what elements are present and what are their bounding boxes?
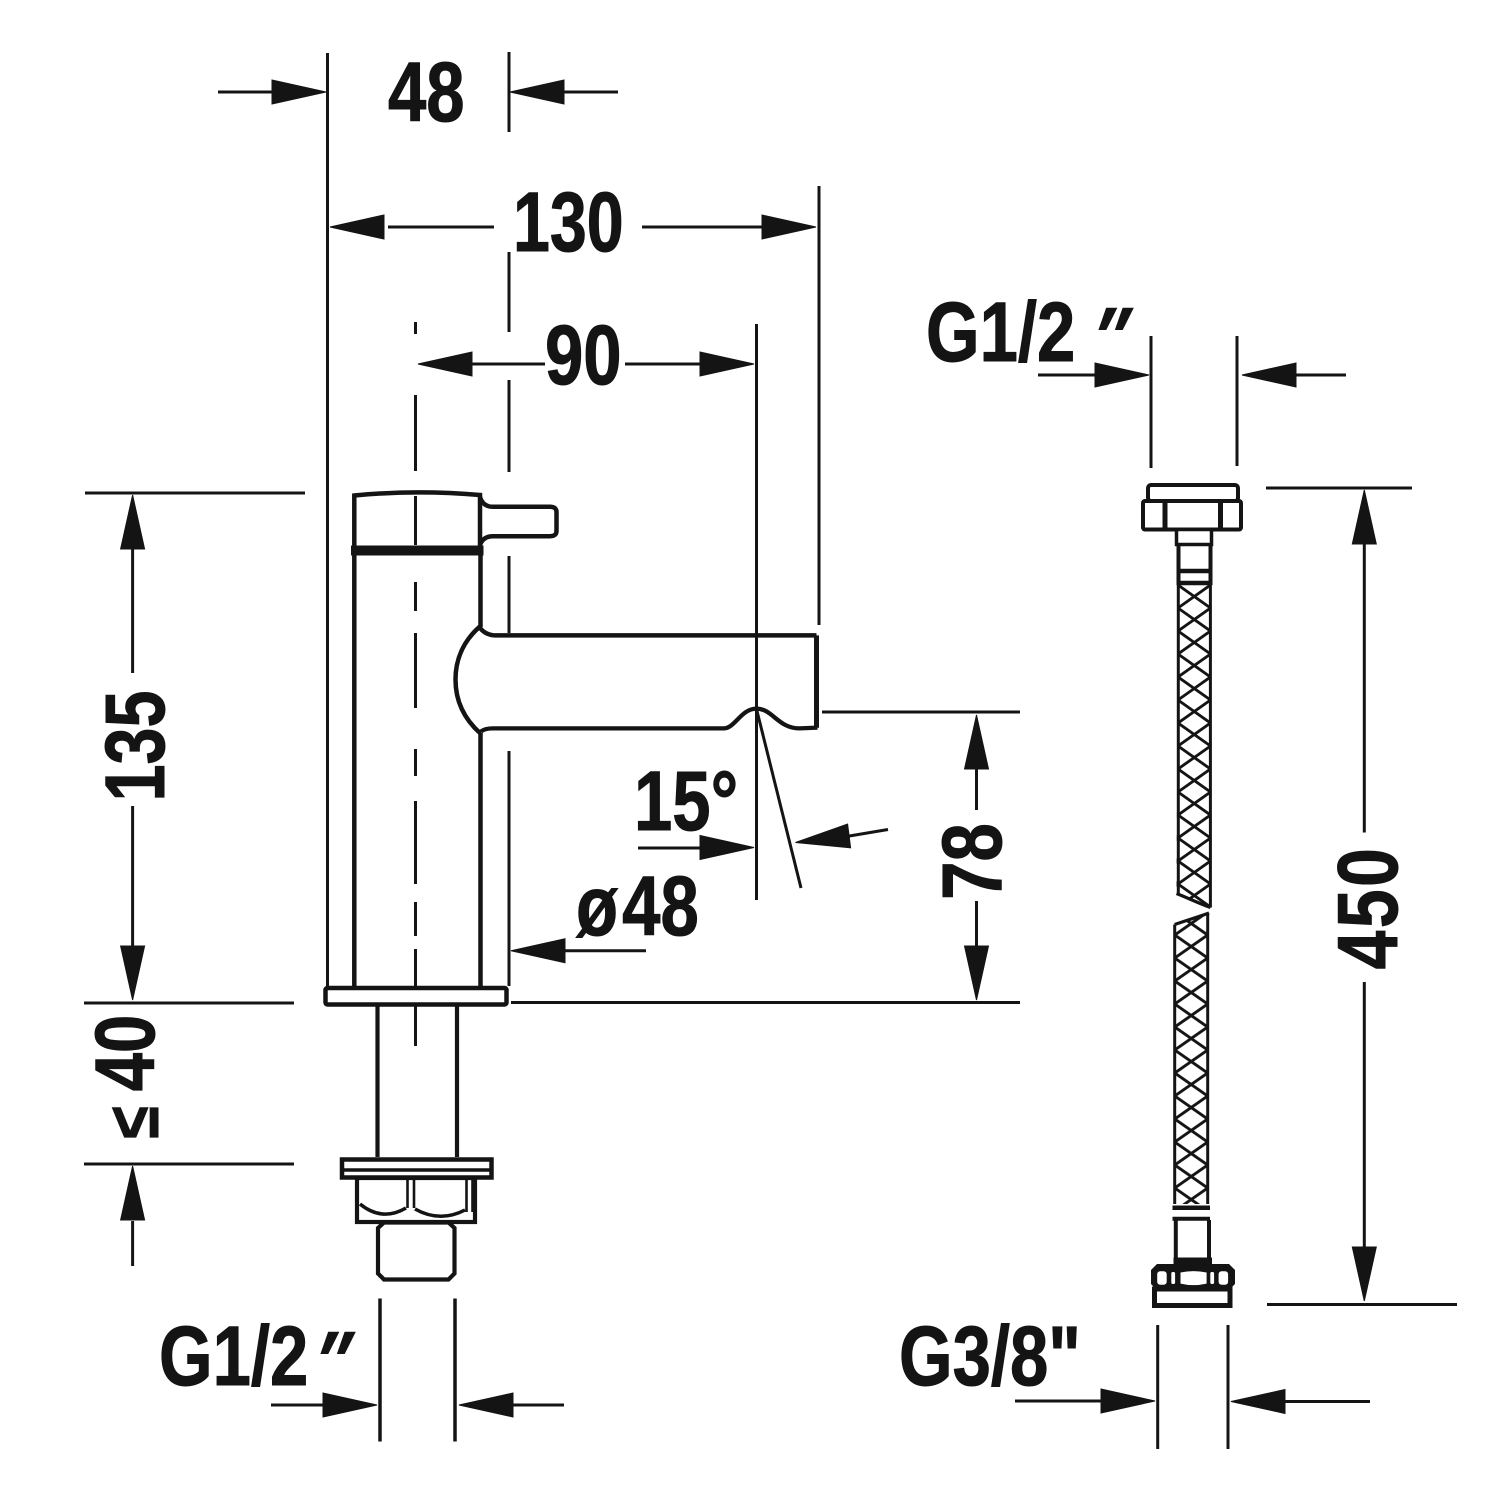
faucet body right edge upper: [478, 555, 483, 627]
dimension le 40 lower arrow: [131, 1221, 134, 1266]
faucet shank right edge: [455, 1006, 459, 1157]
dimension 130 arrow right: [642, 226, 766, 229]
faucet head cap outline: [354, 492, 480, 548]
G1/2 bottom arrow left: [271, 1404, 328, 1407]
extension line spout tip (x=819): [818, 186, 821, 625]
hex locknut: [357, 1178, 475, 1222]
dimension 130 arrow left: [388, 226, 494, 229]
supply pipe extension lines below stub: [378, 1299, 382, 1442]
hose neck tube edges: [1177, 545, 1181, 586]
spout right (outlet) edge: [814, 635, 819, 727]
svg-text:15°: 15°: [634, 755, 738, 849]
G1/2 bottom arrow right: [512, 1404, 564, 1407]
dimension 48 (top) arrow right: [563, 91, 618, 94]
hose top collar: [1177, 530, 1212, 545]
extension line left of faucet (flange width ref, x=327): [326, 53, 329, 988]
svg-text:450: 450: [1322, 846, 1416, 970]
upper braided hose section: [1177, 585, 1211, 908]
15 deg arrow right (tilted): [796, 824, 851, 848]
lower braided hose section: [1175, 913, 1209, 1204]
svg-text:G1/2: G1/2: [926, 286, 1075, 380]
svg-text:90: 90: [545, 309, 622, 403]
faucet body right edge lower: [478, 733, 483, 988]
dimension 450 top extension line: [1266, 487, 1412, 490]
G1/2 top arrow left: [1038, 374, 1100, 377]
dimension 135 vertical line with arrows: [131, 549, 134, 673]
dimension 450 bottom extension line: [1267, 1303, 1457, 1306]
faucet head/body joint thick band: [351, 546, 484, 556]
15 deg arrow left: [638, 847, 704, 850]
15 deg reference diagonal: [757, 709, 802, 888]
hose bottom outlet stub G3/8: [1155, 1289, 1231, 1306]
o48 leader line with arrow: [556, 949, 646, 952]
svg-text:40: 40: [79, 1015, 173, 1092]
svg-text:48: 48: [388, 46, 465, 140]
spout neck transition arc: [456, 626, 481, 734]
G3/8 extension line right: [1227, 1325, 1230, 1449]
hose nut extension line left: [1150, 336, 1153, 468]
lower crimp ferrule: [1173, 1206, 1211, 1211]
hose nut extension line right: [1236, 336, 1239, 466]
hose bottom hex nut (dark with facets): [1151, 1264, 1235, 1290]
dimension 135 top extension line: [85, 492, 305, 495]
svg-text:78: 78: [926, 823, 1020, 900]
dimension le 40 bottom extension line: [84, 1163, 294, 1166]
dimension 48 (top) arrow left: [218, 91, 276, 94]
G3/8 extension line left: [1156, 1325, 1159, 1449]
G3/8 arrow right: [1284, 1400, 1370, 1403]
dimension 90 arrow left: [472, 363, 545, 366]
svg-text:135: 135: [89, 691, 183, 802]
extension line spout outlet axis (x=756.5): [755, 324, 758, 900]
faucet body left edge: [352, 555, 357, 988]
faucet base flange: [326, 988, 507, 1005]
dimension 135 bottom extension line (mounting face): [84, 1002, 294, 1005]
spout top edge: [480, 628, 817, 635]
dimension 450 vertical line with arrows: [1352, 490, 1376, 544]
spout bottom edge with aerator notch wave: [481, 709, 818, 732]
faucet shank left edge: [375, 1006, 379, 1157]
G1/2 top arrow right: [1294, 374, 1346, 377]
dimension 90 arrow right: [625, 363, 703, 366]
dimension 78 vertical line with arrows: [965, 715, 989, 769]
svg-text:G3/8": G3/8": [899, 1310, 1081, 1404]
hose top hex nut: [1143, 501, 1241, 530]
faucet centerline (vertical axis x=415.5): [414, 322, 417, 334]
lower neck tube edges: [1174, 1220, 1178, 1258]
svg-text:≤: ≤: [92, 1106, 173, 1138]
dimension 78 top extension line (outlet level): [822, 711, 1020, 714]
lower tube end dark band: [1174, 1258, 1213, 1265]
extension line right of faucet flange (x=509, broken): [508, 52, 511, 132]
svg-text:ø48: ø48: [576, 860, 699, 954]
hose top cap plate: [1148, 485, 1238, 501]
faucet handle lever: [480, 497, 557, 545]
threaded inlet stub G1/2: [378, 1223, 455, 1280]
G3/8 arrow left: [1015, 1400, 1104, 1403]
svg-text:G1/2: G1/2: [159, 1310, 308, 1404]
locknut washer plate: [342, 1160, 492, 1178]
dimension 78 bottom extension line: [511, 1001, 1020, 1004]
svg-text:130: 130: [513, 176, 624, 270]
hose crimp ferrule: [1177, 569, 1213, 574]
